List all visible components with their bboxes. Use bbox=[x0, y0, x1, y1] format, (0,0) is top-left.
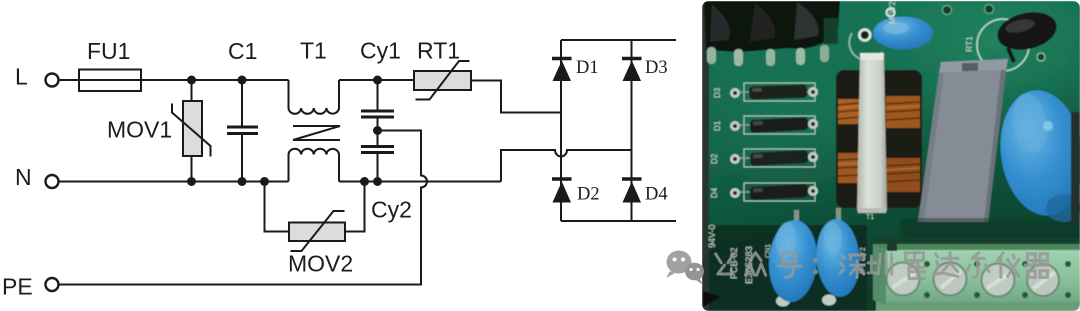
wire bridge top rail bbox=[561, 39, 676, 41]
svg-text:Cy2: Cy2 bbox=[371, 197, 412, 223]
svg-text:PE: PE bbox=[2, 274, 33, 300]
photo big blue capacitor right bbox=[993, 85, 1080, 222]
photo right edge dark strip bbox=[1071, 112, 1080, 234]
photo diode D4 bbox=[730, 183, 818, 201]
photo mounting pad bbox=[858, 28, 872, 42]
photo terminal screw 3 bbox=[982, 264, 1015, 297]
photo terminal block bbox=[873, 238, 1080, 311]
transformer T1 top winding bbox=[289, 80, 340, 114]
junction dot MOV2 right branch bbox=[360, 177, 369, 186]
photo terminal pin holes bbox=[924, 261, 1071, 298]
watermark WeChat icon bbox=[666, 251, 704, 286]
photo metal clamp bar bbox=[857, 53, 887, 208]
wire L top rail bbox=[59, 79, 289, 81]
diode D4 bbox=[622, 179, 642, 203]
photo top-left black connector block bbox=[704, 1, 840, 66]
capacitor Cy2 bbox=[361, 147, 394, 182]
svg-text:T1: T1 bbox=[300, 38, 327, 64]
svg-text:D4: D4 bbox=[645, 185, 668, 205]
watermark char yi bbox=[997, 253, 1018, 278]
wire RT1 to bridge input A bbox=[471, 81, 561, 113]
photo toroid choke windings bbox=[836, 70, 922, 208]
svg-text:FU1: FU1 bbox=[87, 38, 130, 64]
watermark char gong bbox=[716, 254, 734, 274]
svg-text:Cy1: Cy1 bbox=[360, 38, 401, 64]
watermark colon bbox=[813, 258, 818, 275]
photo PCB background bbox=[702, 1, 1080, 311]
photo silkscreen RT1 circle bbox=[977, 19, 1029, 71]
transformer T1 core bbox=[293, 126, 340, 140]
watermark char er bbox=[966, 253, 988, 278]
svg-text:D1: D1 bbox=[576, 58, 599, 78]
wire bridge left branch bbox=[560, 40, 562, 221]
diode D3 bbox=[622, 59, 642, 82]
junction dot MOV2 left branch bbox=[260, 177, 269, 186]
photo board left edge bbox=[702, 1, 709, 311]
photo terminal screw 4 bbox=[1027, 264, 1059, 296]
svg-text:L: L bbox=[15, 64, 28, 90]
svg-text:D3: D3 bbox=[645, 58, 668, 78]
wire Y-cap midpoint to PE with hop over N rail bbox=[59, 131, 428, 285]
photo dark shadow under components bbox=[905, 222, 1080, 246]
wire N rail left bbox=[59, 181, 289, 183]
junction dot Cy2 bottom bbox=[373, 177, 382, 186]
svg-text:RT1: RT1 bbox=[417, 38, 460, 64]
watermark char zhong bbox=[745, 253, 765, 275]
capacitor C1 bbox=[227, 80, 258, 182]
watermark char hao bbox=[778, 253, 800, 278]
thermistor RT1 bbox=[414, 61, 471, 100]
photo black corner triangle bbox=[703, 291, 721, 307]
node L terminal bbox=[46, 74, 59, 87]
junction dot MOV1 bottom bbox=[187, 177, 196, 186]
svg-text:C1: C1 bbox=[228, 38, 257, 64]
fuse FU1 bbox=[79, 70, 141, 92]
wire N to bridge input B with hop bbox=[501, 150, 632, 182]
photo diode D3 bbox=[730, 83, 818, 101]
photo pad circles top right bbox=[943, 6, 952, 15]
wire top rail T1 to RT1 bbox=[339, 79, 414, 81]
photo blue capacitor CY1 bottom-left bbox=[766, 208, 841, 307]
photo relay gray block bbox=[918, 59, 1008, 224]
transformer T1 bottom winding bbox=[289, 149, 340, 182]
junction dot Cy1 top bbox=[373, 76, 382, 85]
photo diode D1 bbox=[730, 116, 818, 134]
photo terminal screw 2 bbox=[934, 263, 967, 296]
svg-text:MOV2: MOV2 bbox=[288, 251, 353, 277]
varistor MOV2 bbox=[265, 182, 365, 252]
watermark char zhen bbox=[868, 254, 892, 274]
photo blue capacitor CY2 bottom bbox=[814, 218, 862, 299]
watermark char qi bbox=[1025, 254, 1050, 278]
node N terminal bbox=[46, 175, 59, 188]
diode D1 bbox=[552, 59, 572, 82]
wire bridge bottom rail bbox=[561, 220, 676, 222]
svg-text:N: N bbox=[15, 164, 32, 190]
photo terminal screw 1 bbox=[887, 263, 920, 296]
photo small blue capacitor top bbox=[873, 17, 933, 50]
junction dot MOV1 top bbox=[187, 76, 196, 85]
junction dot Y-cap midpoint bbox=[373, 126, 382, 135]
svg-text:MOV1: MOV1 bbox=[107, 117, 172, 143]
watermark char da bbox=[933, 253, 958, 277]
wire N rail right bbox=[339, 181, 501, 183]
wire bridge right branch bbox=[631, 40, 633, 221]
node PE terminal bbox=[46, 278, 59, 291]
svg-text:D2: D2 bbox=[577, 185, 600, 205]
junction dot C1 top bbox=[238, 76, 247, 85]
diode D2 bbox=[552, 179, 572, 203]
varistor MOV1 bbox=[172, 80, 211, 182]
photo diode D2 bbox=[730, 149, 818, 167]
watermark char shen bbox=[840, 255, 865, 277]
junction dot C1 bottom bbox=[238, 177, 247, 186]
capacitor Cy1 bbox=[361, 80, 394, 146]
photo black MOV disc top-right bbox=[994, 7, 1061, 62]
watermark char huo bbox=[906, 253, 925, 279]
photo tone film bbox=[702, 1, 1080, 311]
